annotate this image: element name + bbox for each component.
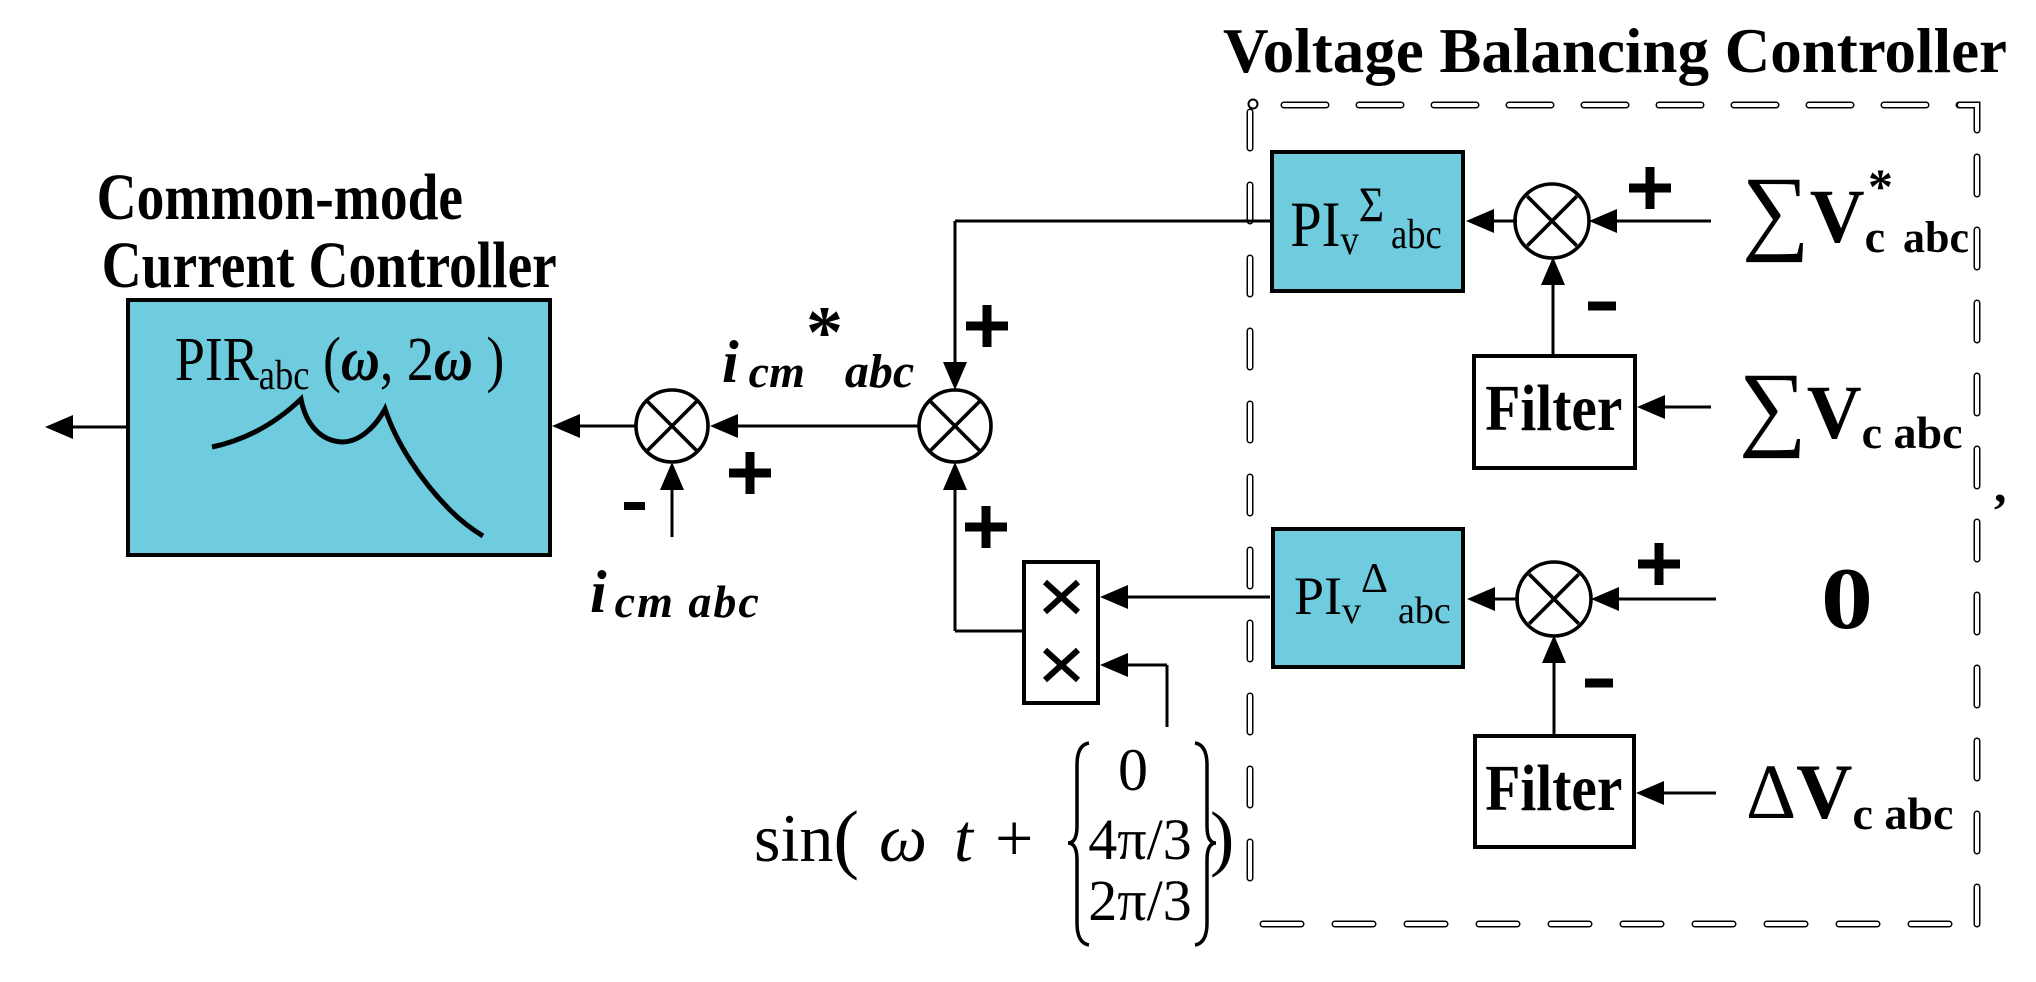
svg-text:sin(ωt+: sin(ωt+: [754, 795, 1033, 881]
svg-text:*: *: [806, 292, 843, 374]
svg-text:PIRabc (ω, 2ω ): PIRabc (ω, 2ω ): [175, 325, 504, 399]
svg-text:0: 0: [1118, 737, 1148, 803]
svg-text:*: *: [1868, 158, 1893, 214]
svg-text:Current Controller: Current Controller: [102, 230, 557, 303]
svg-text:∑Vcabc: ∑Vcabc: [1742, 157, 1969, 263]
svg-text:,: ,: [1994, 457, 2007, 513]
svg-text:): ): [1210, 797, 1234, 878]
svg-text:ΔVc abc: ΔVc abc: [1746, 748, 1953, 839]
svg-text:icm abc: icm abc: [590, 559, 761, 627]
svg-text:2π/3: 2π/3: [1088, 868, 1191, 933]
svg-text:Common-mode: Common-mode: [97, 162, 463, 235]
svg-text:Filter: Filter: [1485, 372, 1622, 445]
svg-text:0: 0: [1821, 549, 1873, 647]
svg-text:Filter: Filter: [1485, 752, 1622, 825]
svg-text:4π/3: 4π/3: [1088, 807, 1191, 872]
svg-text:∑Vc abc: ∑Vc abc: [1739, 353, 1963, 459]
svg-text:Voltage Balancing Controller: Voltage Balancing Controller: [1223, 16, 2007, 86]
